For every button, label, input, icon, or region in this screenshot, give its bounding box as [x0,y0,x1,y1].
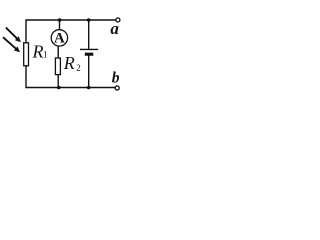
terminal b circle [115,86,119,90]
wire ammeter to R2 [57,46,59,58]
wire top horizontal [26,19,116,21]
wire left vertical lower [25,66,27,89]
wire left vertical upper [25,19,27,43]
battery short thick plate [85,53,94,56]
wire R2 to bottom [57,74,59,87]
light arrow 1 [6,28,21,43]
junction dot top battery [87,18,91,22]
light arrow 2 [3,37,20,52]
wire bottom horizontal [26,87,115,89]
svg-text:R: R [63,53,75,73]
svg-text:a: a [110,19,119,38]
wire battery top [88,20,90,49]
terminal a circle [116,18,120,22]
wire ammeter branch drop [59,20,61,30]
svg-text:A: A [54,31,65,47]
resistor R2 [55,58,60,75]
svg-text:b: b [112,70,120,87]
battery long plate [80,48,98,50]
wire battery bottom [88,55,90,88]
ammeter A circle [51,30,67,46]
junction dot bottom battery [87,86,91,90]
photoresistor R1 [24,43,29,66]
svg-text:R: R [32,42,44,62]
junction dot top ammeter branch [58,18,62,22]
svg-text:2: 2 [76,63,81,73]
junction dot bottom ammeter branch [57,86,61,90]
svg-text:1: 1 [43,50,48,60]
